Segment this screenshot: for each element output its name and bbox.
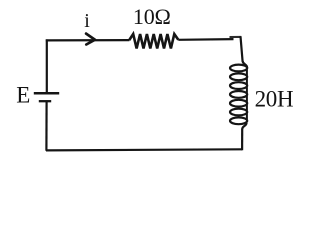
inductor turn 4 [230,91,247,98]
current arrow head [86,34,95,45]
svg-text:20H: 20H [255,87,294,112]
wire top-left horizontal segment [46,39,130,42]
wire right vertical upper (corner to coil) [241,36,243,61]
resistor R 10ohm zigzag [129,34,178,49]
wire top-right step segment [230,36,242,38]
svg-text:10Ω: 10Ω [133,4,171,29]
inductor turn 2 [230,73,247,80]
inductor turn 6 [230,109,247,116]
inductor L 20H entry curve [243,61,248,68]
battery E short plate [39,100,51,102]
svg-text:E: E [16,83,30,108]
wire right vertical lower [241,129,243,151]
battery E long plate [34,92,59,95]
inductor turn 5 [230,100,247,107]
wire bottom horizontal [46,149,242,150]
inductor exit curve [242,123,246,129]
wire left vertical lower (battery to bottom) [45,102,47,151]
inductor turn 7 [230,117,247,124]
inductor turn 1 [230,65,247,72]
svg-text:i: i [84,10,90,32]
inductor turn 3 [230,82,247,89]
inductor right-side connectors [246,70,248,120]
wire top-right horizontal segment [178,38,233,41]
wire left vertical upper (top corner to battery) [46,39,48,92]
